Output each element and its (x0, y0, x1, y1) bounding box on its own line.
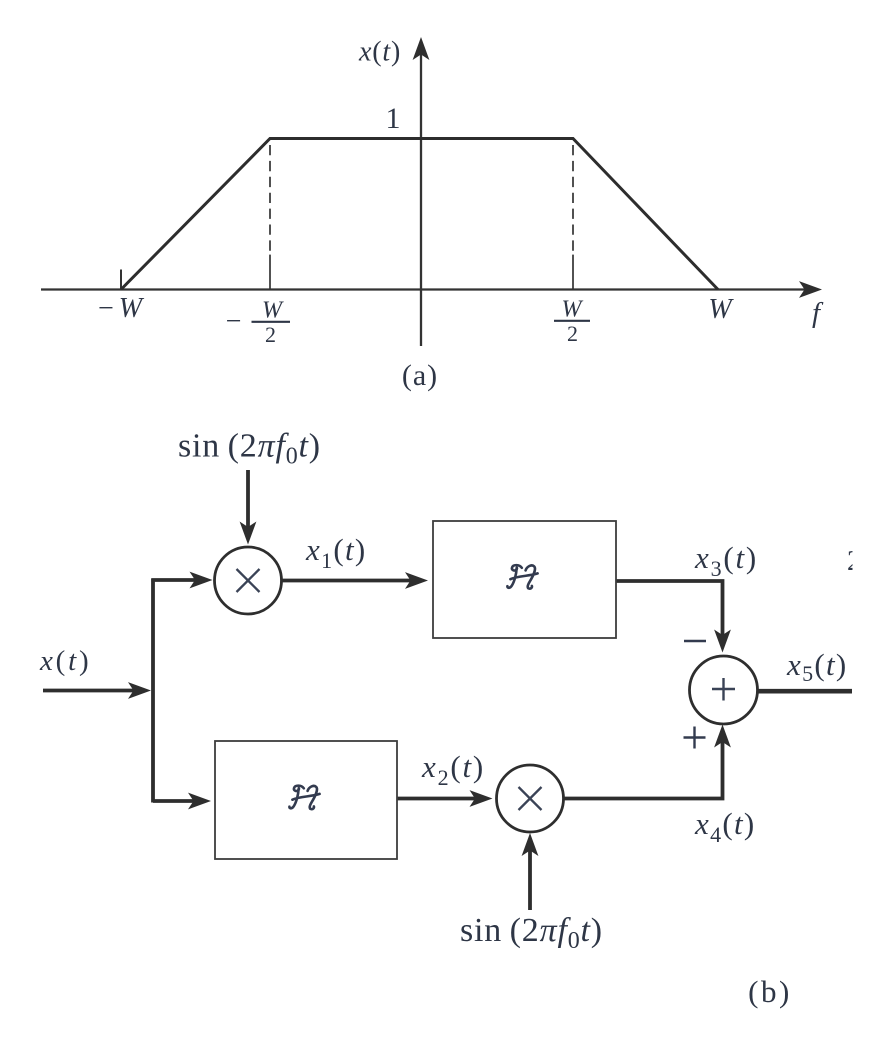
y axis (420, 52, 422, 346)
svg-text:x5(t): x5(t) (786, 647, 848, 686)
svg-text:2: 2 (567, 321, 578, 346)
svg-text:f: f (812, 297, 824, 329)
arrowhead: sin carrier into M1 (240, 522, 257, 545)
wire: summer output (758, 689, 853, 694)
svg-text:sin (2πf0t): sin (2πf0t) (178, 428, 321, 470)
svg-text:−W: −W (98, 293, 145, 324)
svg-text:x4(t): x4(t) (694, 806, 756, 847)
svg-text:W: W (262, 298, 284, 324)
arrowhead: into block H2 (188, 793, 211, 810)
arrowhead: into multiplier M1 (190, 572, 213, 589)
arrowhead: x4(t) into summer (plus input) (714, 725, 731, 748)
wire: vertical branch (151, 579, 155, 803)
x axis (f axis) (41, 288, 806, 290)
svg-text:sin (2πf0t): sin (2πf0t) (460, 912, 603, 954)
minus sign at summer top input (684, 640, 706, 643)
svg-text:W: W (708, 294, 734, 325)
arrowhead: sin carrier into M2 (522, 833, 539, 856)
dashed line at -W/2 (269, 145, 271, 254)
plus sign at summer bottom input (684, 727, 706, 749)
svg-text:x2(t): x2(t) (421, 749, 485, 790)
multiplier M2 circle (497, 765, 564, 832)
partial cropped digit at right edge (847, 546, 861, 577)
wire: branch to multiplier M1 (151, 578, 199, 582)
tick at -W (120, 270, 122, 290)
wire: sin input to M2 (528, 848, 532, 910)
dashed line at W/2 (572, 145, 574, 254)
svg-text:1: 1 (386, 102, 401, 135)
summer S1 plus sign (712, 678, 735, 701)
svg-text:x(t): x(t) (39, 645, 91, 677)
arrowhead: x1(t) into block H1 (405, 572, 428, 589)
arrowhead: x3(t) into summer (minus input) (714, 630, 731, 653)
svg-text:x1(t): x1(t) (305, 532, 367, 573)
wire: x4 from M2 to summer (564, 740, 723, 799)
summer S1 circle (690, 656, 758, 724)
svg-text:x3(t): x3(t) (694, 540, 758, 581)
svg-text:2: 2 (265, 322, 276, 347)
svg-text:(b): (b) (748, 974, 792, 1009)
trapezoid spectrum curve (121, 139, 718, 290)
svg-text:(a): (a) (402, 359, 438, 392)
svg-text:−: − (226, 306, 242, 337)
Hilbert transform block H2 box (215, 741, 397, 859)
wire: branch to H2 (153, 799, 198, 803)
multiplier M2 times sign (519, 787, 542, 810)
block H1 script-H symbol (507, 565, 537, 589)
block H2 script-H symbol (289, 786, 319, 810)
wire: M1 to H1 (282, 579, 415, 583)
svg-text:W: W (562, 297, 584, 323)
multiplier M1 circle (215, 547, 282, 614)
wire: H2 to M2 (397, 797, 479, 801)
Hilbert transform block H1 box (433, 521, 616, 638)
label -W/2 fraction (226, 298, 290, 348)
multiplier M1 times sign (237, 569, 260, 592)
label W/2 fraction (554, 297, 590, 347)
svg-text:2: 2 (847, 546, 861, 577)
arrowhead: x2(t) into multiplier M2 (470, 790, 493, 807)
wire: x(t) input (43, 689, 137, 693)
svg-text:x(t): x(t) (358, 37, 401, 68)
wire: H1 out, down to summer (615, 581, 723, 638)
wire: sin input to M1 (246, 470, 250, 530)
arrowhead: x(t) input into branch node (128, 682, 151, 699)
